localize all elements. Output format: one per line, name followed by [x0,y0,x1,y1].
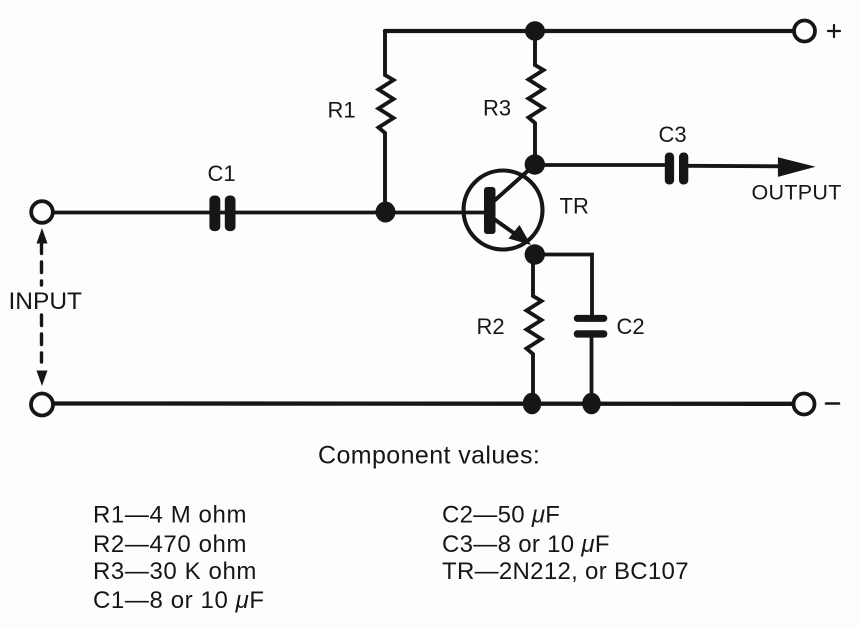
wire input dashed span [40,243,43,362]
node top junction [525,21,545,40]
wire input to base [53,211,488,215]
svg-text:R1: R1 [328,98,356,123]
node collector junction [525,154,545,174]
svg-text:TR—2N212, or BC107: TR—2N212, or BC107 [442,558,689,585]
svg-text:TR: TR [560,194,589,219]
svg-text:Component values:: Component values: [318,442,540,470]
svg-text:C2—50 μF: C2—50 μF [442,502,560,529]
output arrowhead [778,157,816,177]
terminal negative supply [794,394,815,415]
terminal positive supply [794,21,815,42]
svg-text:R2—470 ohm: R2—470 ohm [93,531,247,558]
svg-text:R3—30 K ohm: R3—30 K ohm [93,558,257,585]
svg-text:R3: R3 [483,96,511,121]
capacitor C3 [665,153,689,185]
wire collector to C3 [535,163,664,167]
node ground junction C2 [582,393,601,415]
svg-text:C3: C3 [659,122,687,147]
capacitor C1 [209,196,235,232]
svg-text:R2: R2 [477,314,505,339]
wire emitter to C2 branch [535,255,592,316]
svg-text:C1: C1 [208,161,236,186]
resistor R3 [529,31,544,165]
wire top supply rail [385,29,792,33]
svg-text:OUTPUT: OUTPUT [752,181,842,205]
input arrowhead up [37,228,48,244]
svg-text:C3—8 or 10 μF: C3—8 or 10 μF [442,531,610,558]
wire bottom ground rail [53,401,792,406]
terminal input bottom [31,394,53,416]
node base junction [376,202,396,223]
node ground junction R2 [523,393,542,415]
resistor R1 [379,31,394,212]
transistor TR [464,168,543,250]
wire C3 to output arrow [688,164,782,168]
resistor R2 [527,255,542,404]
terminal input top [31,201,53,223]
label - [826,402,839,405]
input arrowhead down [37,371,48,387]
svg-text:C2: C2 [617,314,645,339]
svg-text:C1—8 or 10 μF: C1—8 or 10 μF [93,587,265,614]
svg-text:INPUT: INPUT [9,288,83,315]
svg-text:R1—4 M ohm: R1—4 M ohm [93,502,247,529]
capacitor C2 [574,315,608,338]
label + [828,25,840,37]
wire C2 to ground rail [590,338,594,403]
node emitter junction [525,244,545,264]
